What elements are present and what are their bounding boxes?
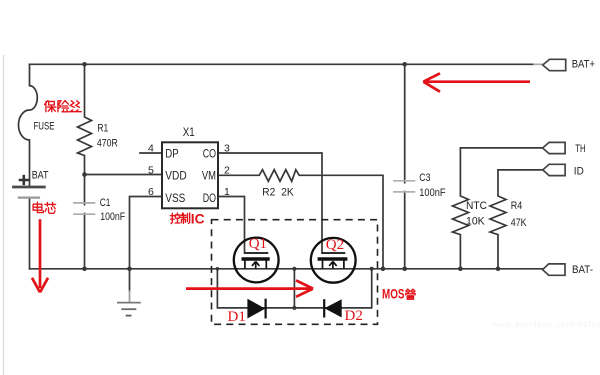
svg-text:1: 1 — [224, 186, 230, 198]
svg-text:100nF: 100nF — [419, 187, 446, 199]
svg-text:NTC: NTC — [466, 200, 487, 212]
svg-text:CO: CO — [203, 147, 216, 161]
svg-text:BAT-: BAT- — [572, 264, 593, 276]
svg-text:DP: DP — [165, 147, 178, 161]
svg-text:2K: 2K — [281, 186, 294, 198]
svg-text:4: 4 — [148, 143, 154, 155]
svg-text:VM: VM — [202, 169, 216, 183]
svg-text:D2: D2 — [345, 308, 363, 324]
svg-text:100nF: 100nF — [100, 211, 125, 223]
svg-text:VDD: VDD — [165, 169, 187, 183]
svg-text:C1: C1 — [100, 197, 111, 209]
svg-text:R4: R4 — [511, 200, 523, 212]
svg-text:TH: TH — [575, 143, 585, 155]
svg-text:Q1: Q1 — [249, 236, 267, 252]
svg-text:IC: IC — [191, 211, 205, 227]
svg-text:R2: R2 — [262, 186, 275, 198]
svg-text:470R: 470R — [97, 137, 118, 149]
svg-text:5: 5 — [148, 165, 154, 177]
svg-text:BAT+: BAT+ — [572, 58, 595, 70]
svg-text:6: 6 — [148, 186, 154, 198]
svg-text:3: 3 — [224, 143, 230, 155]
svg-text:ID: ID — [574, 165, 584, 177]
svg-text:2: 2 — [224, 165, 230, 177]
svg-text:Q2: Q2 — [326, 237, 344, 253]
svg-text:BAT: BAT — [32, 170, 49, 182]
svg-text:www.elecfans.com-dzfsy: www.elecfans.com-dzfsy — [491, 320, 600, 329]
svg-text:FUSE: FUSE — [34, 121, 55, 133]
svg-text:VSS: VSS — [165, 191, 185, 205]
svg-text:DO: DO — [203, 191, 216, 205]
svg-text:MOS: MOS — [382, 287, 405, 302]
svg-text:D1: D1 — [228, 309, 246, 325]
svg-text:C3: C3 — [419, 172, 430, 184]
svg-text:47K: 47K — [511, 217, 527, 229]
svg-text:10K: 10K — [466, 216, 485, 228]
svg-text:X1: X1 — [183, 125, 195, 139]
svg-text:R1: R1 — [97, 123, 108, 135]
